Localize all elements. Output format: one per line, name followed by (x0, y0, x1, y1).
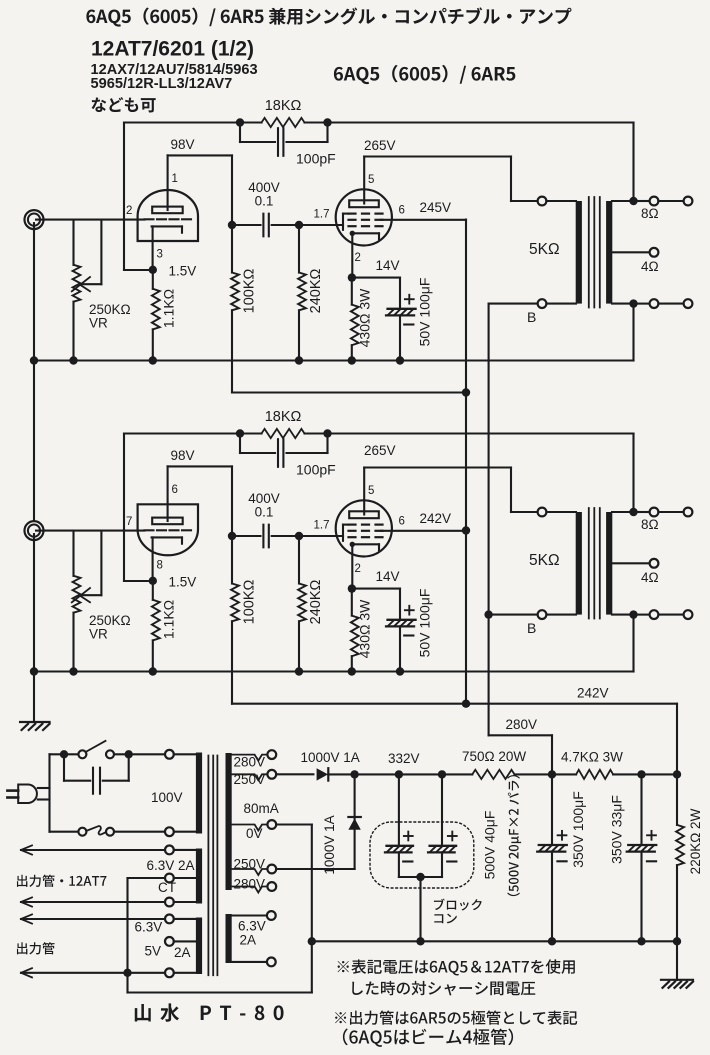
svg-text:350V 100μF: 350V 100μF (570, 791, 586, 868)
svg-text:2: 2 (355, 563, 361, 575)
svg-text:100pF: 100pF (296, 151, 336, 167)
svg-text:6.3V: 6.3V (135, 919, 163, 934)
svg-text:4.7KΩ 3W: 4.7KΩ 3W (561, 750, 623, 765)
svg-text:6.3V 2A: 6.3V 2A (147, 858, 195, 873)
svg-text:240KΩ: 240KΩ (308, 268, 324, 313)
svg-text:50V 100μF: 50V 100μF (417, 278, 433, 347)
svg-text:1.7: 1.7 (314, 209, 330, 221)
svg-text:1.5V: 1.5V (169, 575, 197, 590)
svg-text:2: 2 (126, 205, 132, 217)
svg-text:50V 100μF: 50V 100μF (417, 589, 433, 658)
svg-text:242V: 242V (577, 686, 609, 701)
svg-text:350V 33μF: 350V 33μF (609, 795, 625, 864)
svg-text:242V: 242V (420, 511, 452, 526)
svg-text:2: 2 (355, 252, 361, 264)
svg-text:6: 6 (172, 484, 178, 496)
svg-text:80mA: 80mA (244, 801, 279, 816)
svg-text:B: B (527, 620, 536, 636)
svg-text:6.3V: 6.3V (238, 918, 266, 933)
svg-text:18KΩ: 18KΩ (265, 98, 302, 114)
svg-text:1000V 1A: 1000V 1A (322, 815, 337, 874)
svg-text:CT: CT (158, 880, 176, 895)
svg-text:750Ω 20W: 750Ω 20W (462, 749, 526, 764)
svg-text:5: 5 (368, 485, 374, 497)
svg-text:8Ω: 8Ω (641, 206, 659, 221)
svg-text:250V: 250V (234, 857, 266, 872)
svg-text:250V: 250V (234, 772, 266, 787)
svg-text:5965/12R-LL3/12AV7: 5965/12R-LL3/12AV7 (91, 76, 233, 92)
svg-text:1.5V: 1.5V (169, 264, 197, 279)
svg-text:0.1: 0.1 (255, 505, 274, 520)
svg-text:0.1: 0.1 (255, 194, 274, 209)
svg-text:5KΩ: 5KΩ (529, 241, 560, 258)
svg-text:4Ω: 4Ω (641, 570, 659, 585)
svg-text:430Ω 3W: 430Ω 3W (357, 288, 373, 348)
svg-text:6: 6 (399, 516, 405, 528)
svg-text:332V: 332V (388, 751, 420, 766)
svg-text:100KΩ: 100KΩ (242, 579, 258, 624)
svg-text:7: 7 (126, 516, 132, 528)
svg-text:14V: 14V (376, 258, 400, 273)
svg-text:1.7: 1.7 (314, 520, 330, 532)
svg-text:8Ω: 8Ω (641, 517, 659, 532)
svg-text:245V: 245V (420, 200, 452, 215)
svg-text:280V: 280V (234, 876, 266, 891)
svg-text:98V: 98V (171, 137, 195, 152)
svg-text:220KΩ 2W: 220KΩ 2W (688, 808, 703, 874)
svg-text:1.1KΩ: 1.1KΩ (161, 289, 177, 328)
svg-text:430Ω 3W: 430Ω 3W (357, 599, 373, 659)
svg-text:0V: 0V (246, 826, 263, 841)
svg-text:265V: 265V (364, 138, 396, 153)
svg-text:100V: 100V (151, 790, 183, 805)
svg-text:4Ω: 4Ω (641, 259, 659, 274)
svg-text:1000V 1A: 1000V 1A (301, 750, 360, 765)
svg-text:100KΩ: 100KΩ (242, 268, 258, 313)
svg-text:265V: 265V (364, 443, 396, 458)
svg-text:B: B (527, 309, 536, 325)
svg-text:5V: 5V (145, 944, 162, 959)
svg-text:2A: 2A (174, 945, 191, 960)
svg-text:280V: 280V (234, 755, 266, 770)
svg-text:500V 40μF: 500V 40μF (482, 811, 498, 880)
svg-text:100pF: 100pF (296, 462, 336, 478)
svg-text:8: 8 (157, 560, 163, 572)
svg-text:2A: 2A (240, 933, 257, 948)
svg-text:18KΩ: 18KΩ (265, 409, 302, 425)
svg-text:VR: VR (89, 627, 108, 642)
svg-text:3: 3 (157, 249, 163, 261)
svg-text:12AT7/6201 (1/2): 12AT7/6201 (1/2) (91, 38, 254, 61)
svg-text:6: 6 (399, 205, 405, 217)
svg-text:280V: 280V (506, 717, 538, 732)
svg-text:1.1KΩ: 1.1KΩ (161, 600, 177, 639)
svg-text:VR: VR (89, 316, 108, 331)
svg-text:5: 5 (368, 174, 374, 186)
svg-text:14V: 14V (376, 569, 400, 584)
svg-text:5KΩ: 5KΩ (529, 552, 560, 569)
svg-text:1: 1 (172, 173, 178, 185)
svg-text:98V: 98V (171, 448, 195, 463)
svg-text:240KΩ: 240KΩ (308, 579, 324, 624)
